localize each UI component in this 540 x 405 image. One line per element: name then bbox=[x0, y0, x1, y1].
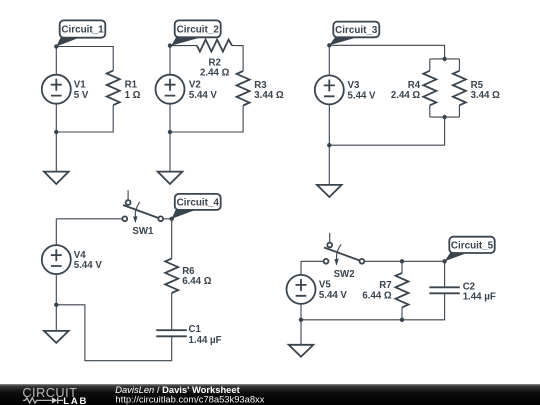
svg-text:5.44 V: 5.44 V bbox=[74, 260, 103, 271]
svg-text:2.44 Ω: 2.44 Ω bbox=[200, 68, 230, 79]
svg-text:Circuit_5: Circuit_5 bbox=[451, 240, 494, 251]
svg-text:1.44 µF: 1.44 µF bbox=[463, 291, 496, 302]
svg-text:C1: C1 bbox=[189, 324, 202, 335]
svg-text:5.44 V: 5.44 V bbox=[319, 290, 348, 301]
svg-text:Circuit_2: Circuit_2 bbox=[177, 24, 220, 35]
svg-text:3.44 Ω: 3.44 Ω bbox=[471, 90, 501, 101]
svg-text:6.44 Ω: 6.44 Ω bbox=[182, 276, 212, 287]
svg-text:SW2: SW2 bbox=[334, 269, 355, 280]
svg-text:1.44 µF: 1.44 µF bbox=[189, 335, 222, 346]
svg-text:5.44 V: 5.44 V bbox=[189, 90, 218, 101]
svg-text:5 V: 5 V bbox=[74, 90, 89, 101]
svg-text:Circuit_4: Circuit_4 bbox=[177, 197, 220, 208]
svg-text:Circuit_3: Circuit_3 bbox=[335, 25, 378, 36]
svg-text:SW1: SW1 bbox=[132, 226, 154, 237]
svg-text:Circuit_1: Circuit_1 bbox=[61, 25, 104, 36]
svg-text:http://circuitlab.com/c78a53k9: http://circuitlab.com/c78a53k93a8xx bbox=[115, 393, 264, 404]
svg-text:2.44 Ω: 2.44 Ω bbox=[391, 90, 421, 101]
svg-text:LAB: LAB bbox=[63, 396, 88, 405]
svg-text:1 Ω: 1 Ω bbox=[125, 90, 141, 101]
svg-text:6.44 Ω: 6.44 Ω bbox=[362, 291, 392, 302]
svg-text:3.44 Ω: 3.44 Ω bbox=[254, 90, 284, 101]
svg-text:5.44 V: 5.44 V bbox=[348, 90, 377, 101]
